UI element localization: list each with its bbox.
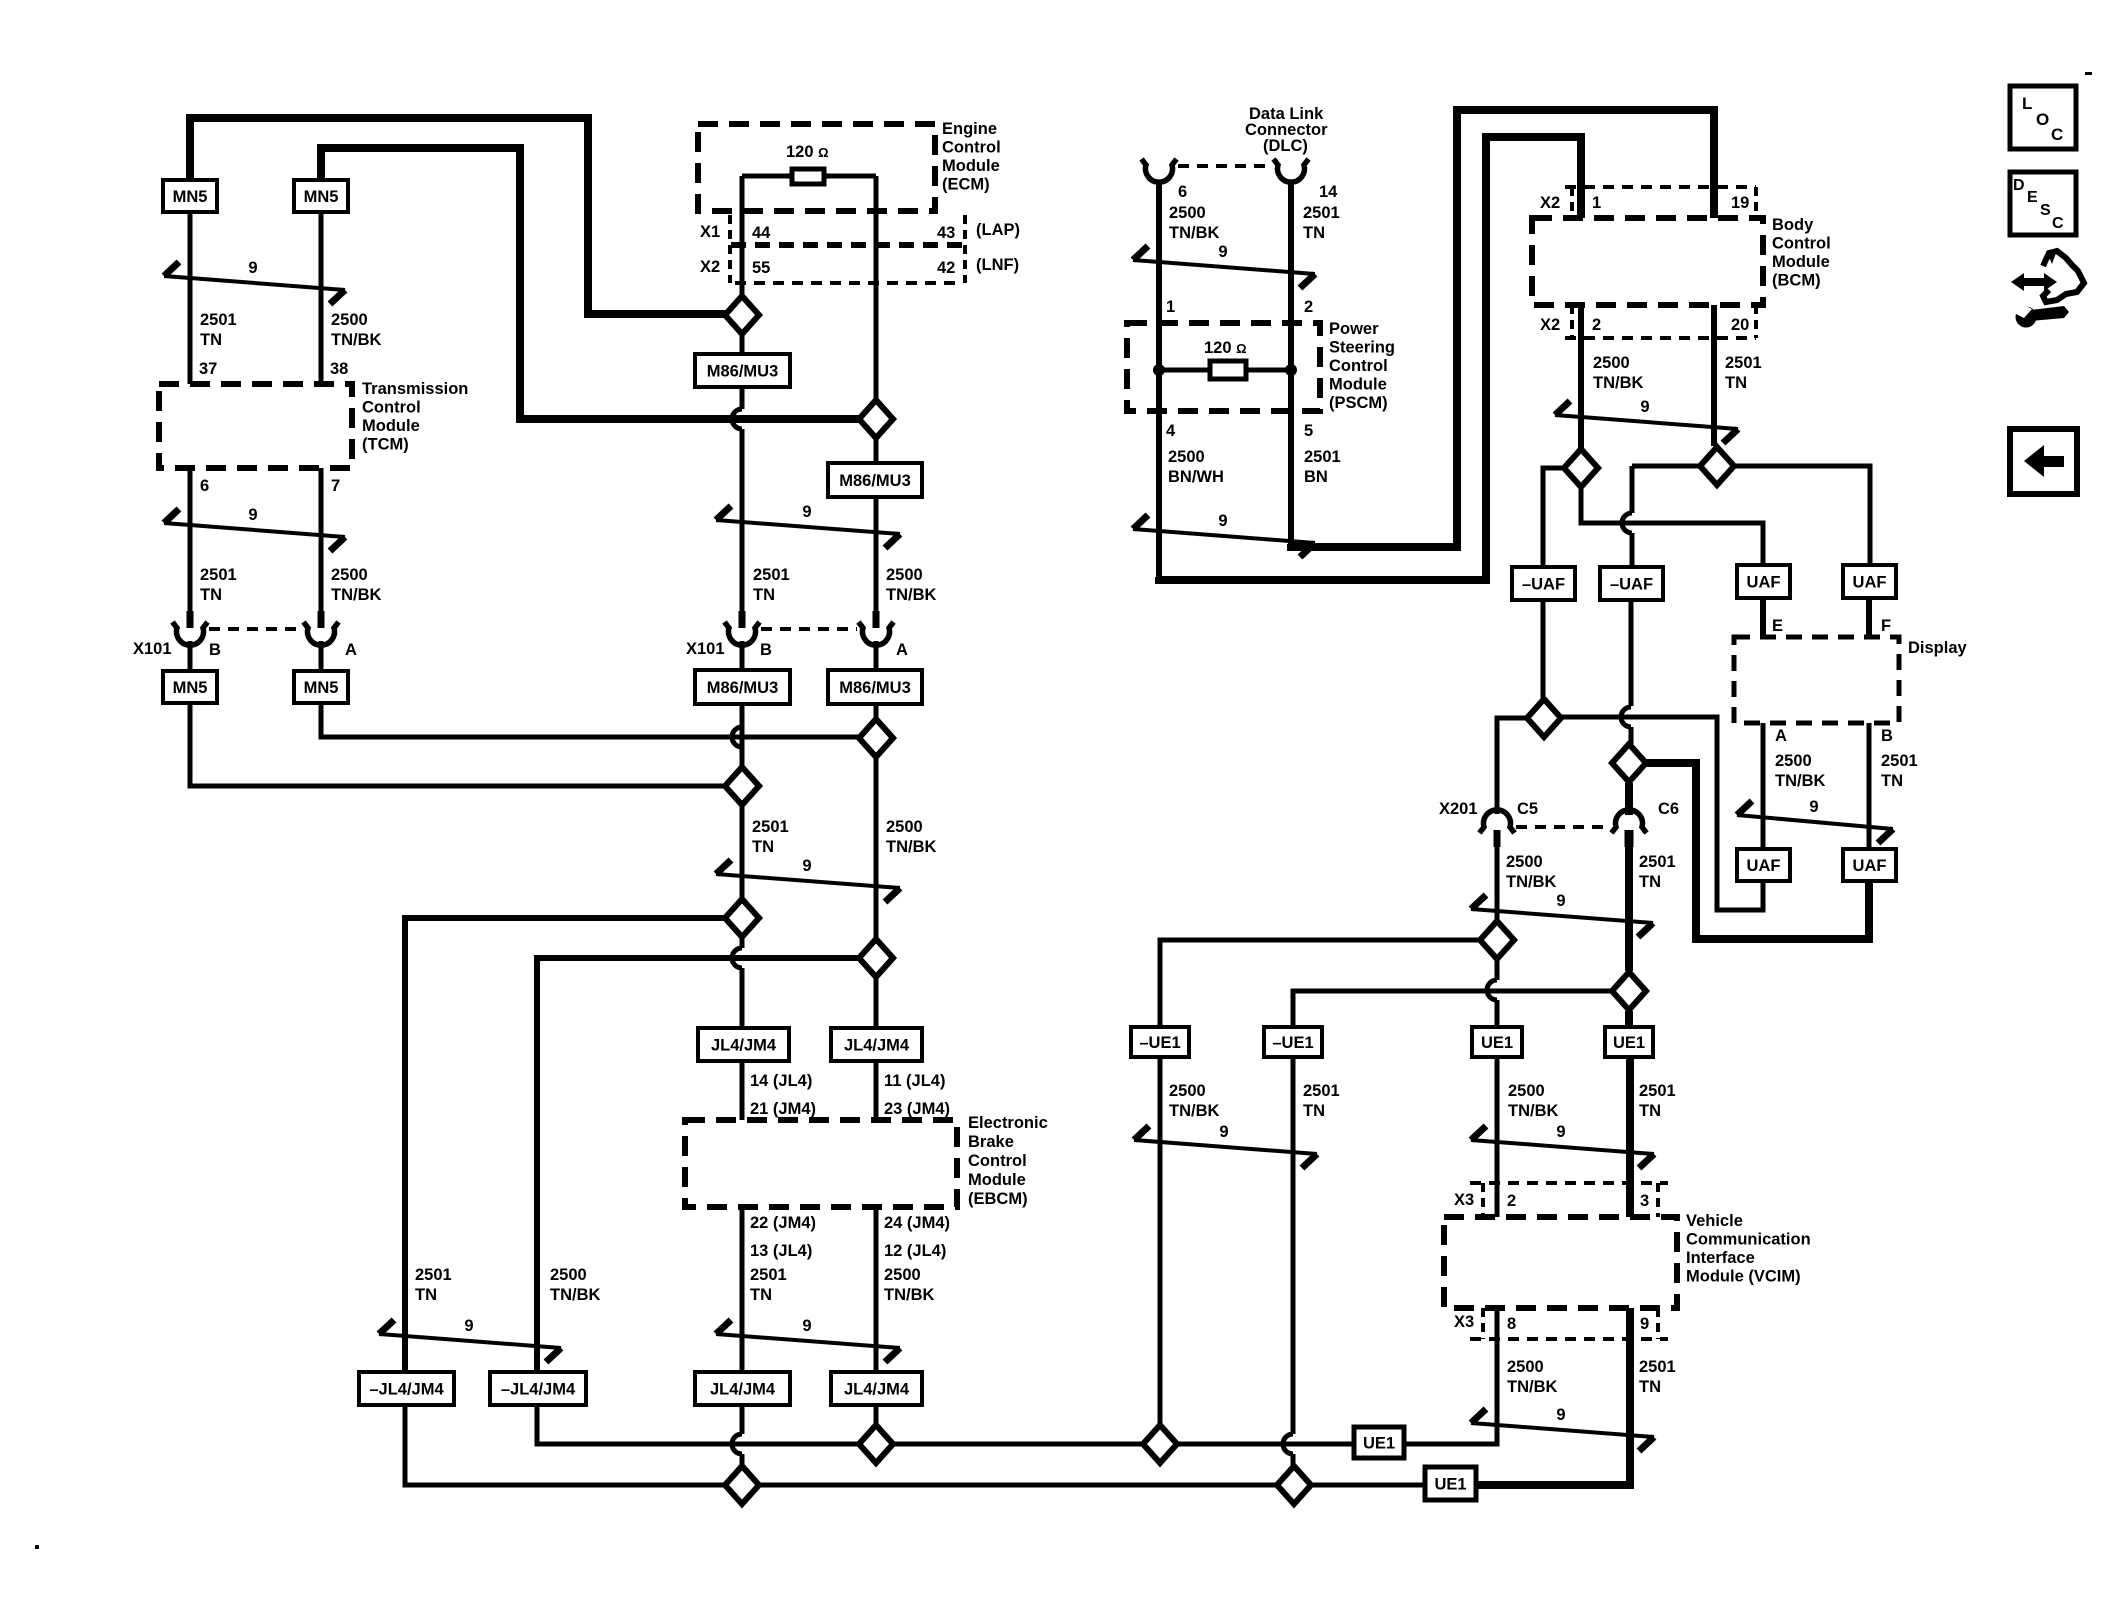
svg-text:X3: X3 (1454, 1191, 1474, 1209)
svg-text:MN5: MN5 (173, 679, 208, 697)
wire into JL4/JM4 (740, 968, 745, 1028)
fuse box MN5 (top second) (294, 180, 348, 212)
svg-text:–JL4/JM4: –JL4/JM4 (501, 1381, 576, 1399)
wire cup A to M86/MU3 (874, 641, 879, 670)
svg-text:X101: X101 (133, 640, 172, 658)
splice diamond (742,786) (725, 767, 759, 805)
icon box back arrow (2010, 429, 2077, 494)
hop (1632,523) (1622, 513, 1632, 533)
connector X101 dashed link (left) (209, 627, 302, 631)
wire UAF to Display pin E (1760, 598, 1766, 637)
module box PSCM (1127, 323, 1320, 411)
wire continues into -UAF second (1630, 533, 1635, 567)
connector bar right (963, 215, 967, 283)
wire splice left to X201 C5 (1497, 718, 1526, 814)
connector X101 dashed link (ECM) (761, 627, 857, 631)
wire UE1 fourth to VCIM pin 3 (thick) (1626, 1057, 1634, 1217)
wire 2500 TN/BK from TCM pin 7 (319, 468, 324, 628)
svg-text:3: 3 (1640, 1192, 1649, 1210)
wire M86/MU3 right down to X101 (874, 497, 879, 628)
connector X101 male pin (B left) (187, 611, 194, 628)
connector X3 top dashed line (1470, 1181, 1668, 1185)
svg-text:X2: X2 (1540, 194, 1560, 212)
svg-text:S: S (2040, 202, 2051, 219)
wire MN5 A to splice run (hops x742) (321, 703, 861, 737)
connector bar left (VCIM bottom) (1481, 1308, 1485, 1339)
fuse box -JL4/JM4 (second) (490, 1372, 586, 1405)
wire DLC pin 14 down (1288, 180, 1294, 323)
wire JL4/JM4 down hops line1 (740, 1405, 745, 1434)
wire -UE1 second down to line2 (hops line1) (1291, 1057, 1296, 1434)
svg-text:120 Ω: 120 Ω (1204, 339, 1247, 357)
icon component view (arrow and wrench) (2011, 251, 2084, 328)
svg-text:Display: Display (1908, 639, 1968, 657)
wire -UAF first down to splice (1541, 600, 1546, 698)
svg-text:42: 42 (937, 259, 955, 277)
wire EBCM pin 22/13 down (740, 1207, 745, 1372)
svg-text:2: 2 (1304, 298, 1313, 316)
wire continues to X101 (740, 429, 745, 628)
bus PSCM pin5 to BCM pin19 (thick) (1291, 110, 1714, 547)
junction dot left (1153, 364, 1165, 376)
wire ECM pin 44/55 down to splice (740, 176, 745, 297)
wire into line2 splice (1291, 1454, 1296, 1465)
twisted pair slash (VCIM bottom) (1471, 1406, 1654, 1451)
wire cup B to M86/MU3 (740, 641, 745, 670)
wire JL4/JM4 right down to line1 splice (874, 1405, 879, 1424)
wire resistor left (1159, 368, 1210, 373)
wire PSCM pin 5 down (1288, 411, 1294, 545)
connector X101 male pin (A left) (318, 611, 325, 628)
wire DLC pin 6 down (1156, 180, 1162, 323)
wire 2501 TN to TCM pin 37 (188, 212, 193, 384)
splice diamond (742,1485) (725, 1466, 759, 1504)
svg-text:9: 9 (1556, 892, 1565, 910)
wire into splice C6 (1629, 727, 1634, 745)
branch wire splice to -UE1 first (1160, 940, 1479, 1027)
svg-text:–JL4/JM4: –JL4/JM4 (369, 1381, 444, 1399)
svg-text:9: 9 (802, 857, 811, 875)
svg-text:14: 14 (1319, 183, 1338, 201)
splice diamond (876,958) (859, 939, 893, 977)
svg-text:9: 9 (802, 1317, 811, 1335)
twisted pair slash (left pair) (379, 1317, 561, 1362)
bus line1 continues (1178, 1442, 1354, 1447)
splice diamond (876,738) (859, 719, 893, 757)
svg-text:9: 9 (1218, 512, 1227, 530)
svg-text:22 (JM4): 22 (JM4) (750, 1214, 816, 1232)
connector X101 female cup A (ECM) (859, 622, 894, 645)
bus line2 continues to UE1 (1312, 1483, 1425, 1488)
svg-text:X3: X3 (1454, 1313, 1474, 1331)
fuse box UAF (lower right) (1843, 849, 1896, 881)
connector bar right (VCIM top) (1656, 1183, 1660, 1217)
connector X3 bottom dashed line (1470, 1337, 1668, 1341)
svg-text:24 (JM4): 24 (JM4) (884, 1214, 950, 1232)
svg-text:23 (JM4): 23 (JM4) (884, 1100, 950, 1118)
fuse box UAF (E) (1737, 565, 1790, 598)
svg-text:44: 44 (752, 224, 771, 242)
branch wire to left bus 2501 (405, 918, 724, 1372)
svg-text:M86/MU3: M86/MU3 (839, 472, 911, 490)
connector X101 female cup A (left) (304, 622, 339, 645)
fuse box UE1 (third) (1472, 1027, 1522, 1057)
svg-text:1: 1 (1592, 194, 1601, 212)
branch wire splice to -UE1 second (1293, 991, 1611, 1027)
wire C6 splice into UE1 (thick) (1625, 1011, 1633, 1027)
wire 2500 TN/BK mid down (874, 758, 879, 938)
svg-text:13 (JL4): 13 (JL4) (750, 1242, 812, 1260)
wire 2501 TN from TCM pin 6 (188, 468, 193, 628)
svg-text:D: D (2013, 177, 2025, 194)
connector DLC dashed link (1178, 164, 1272, 168)
module box VCIM (1444, 1217, 1677, 1308)
fuse box MN5 (bottom left) (163, 671, 217, 703)
connector row X2 bottom dashed (735, 281, 961, 285)
twisted pair slash (X201) (1471, 892, 1653, 937)
fuse box -UE1 (second) (1264, 1027, 1322, 1057)
splice diamond (1497,940) (1480, 921, 1514, 959)
svg-text:X201: X201 (1439, 800, 1478, 818)
wire into UE1 (1495, 1000, 1500, 1027)
wire 876 splice to JL4/JM4 (874, 978, 879, 1028)
svg-text:B: B (1881, 727, 1893, 745)
svg-text:UAF: UAF (1747, 574, 1781, 592)
svg-text:MN5: MN5 (304, 679, 339, 697)
fuse box -UAF (first) (1512, 567, 1575, 600)
splice diamond (1160,1444) (1143, 1425, 1177, 1463)
twisted pair slash (TCM top) (164, 259, 345, 304)
svg-text:C: C (2052, 215, 2064, 232)
connector X101 male pin A (ECM) (873, 611, 880, 628)
fuse box JL4/JM4 (upper right) (831, 1028, 922, 1061)
wire PSCM internal left (1156, 323, 1162, 411)
fuse box UE1 (fourth) (1605, 1027, 1653, 1057)
svg-text:UAF: UAF (1853, 857, 1887, 875)
wire splice right to UAF lower-left loop (1562, 717, 1763, 910)
connector bar right (VCIM bottom) (1656, 1308, 1660, 1339)
icon box LOC (2010, 86, 2076, 149)
svg-text:7: 7 (331, 477, 340, 495)
hop (742,1444) (732, 1434, 742, 1454)
svg-text:–UE1: –UE1 (1139, 1034, 1180, 1052)
wire M86/MU3 to splice (740, 704, 745, 766)
splice diamond (876,1444) (859, 1425, 893, 1463)
svg-text:9: 9 (1640, 1315, 1649, 1333)
twisted pair slash (ECM) (716, 503, 900, 548)
svg-text:14 (JL4): 14 (JL4) (750, 1072, 812, 1090)
svg-text:–UAF: –UAF (1522, 576, 1565, 594)
hop (1631,717) (1621, 707, 1631, 727)
svg-text:B: B (209, 641, 221, 659)
splice diamond (ECM 2500) (859, 400, 893, 438)
svg-text:9: 9 (464, 1317, 473, 1335)
bus PSCM pin4 to BCM pin1 (thick) (1159, 137, 1581, 580)
resistor 120 ohm (ECM) (792, 169, 824, 184)
wire BCM pin 2 down (1578, 305, 1584, 448)
svg-text:37: 37 (199, 360, 217, 378)
twisted pair slash (DLC) (1133, 243, 1315, 288)
svg-text:X2: X2 (1540, 316, 1560, 334)
wire M86/MU3 right to splice (874, 704, 879, 718)
bus line1 to VCIM pin 8 (1404, 1308, 1497, 1444)
connector bar left (BCM top) (1570, 187, 1574, 218)
wire UAF to Display pin F (1866, 598, 1872, 637)
wire -JL4/JM4 second to bottom bus 2500 (537, 1405, 858, 1444)
wire splice to JL4/JM4 hop over branch (740, 938, 745, 948)
svg-text:9: 9 (1219, 1123, 1228, 1141)
connector DLC female cup pin 6 (1142, 159, 1177, 182)
svg-text:–UAF: –UAF (1610, 576, 1653, 594)
svg-text:A: A (345, 641, 357, 659)
svg-text:9: 9 (1809, 798, 1818, 816)
svg-text:9: 9 (1640, 398, 1649, 416)
svg-text:UE1: UE1 (1434, 1476, 1466, 1494)
fuse box UAF (F) (1843, 565, 1896, 598)
svg-text:MN5: MN5 (173, 188, 208, 206)
wire 2500 TN/BK to TCM pin 38 (319, 212, 324, 384)
connector X201 male pin C5 (1494, 830, 1501, 847)
wire into splice line2 (740, 1454, 745, 1465)
wire -UAF second down (hops) (1629, 600, 1634, 706)
wire splice down to UAF E run (1581, 488, 1763, 565)
fuse box M86/MU3 (lower right) (828, 670, 922, 704)
bus line2 to VCIM pin 9 (thick) (1476, 1308, 1630, 1485)
bus line1 2500 TN/BK bottom (894, 1442, 1142, 1447)
hop (742,419) (732, 409, 742, 429)
svg-text:O: O (2036, 110, 2049, 129)
wire Display pin B to UAF (1867, 723, 1872, 849)
wire ECM internal resistor right (824, 174, 876, 179)
wire resistor right (1246, 368, 1291, 373)
twisted pair slash (PSCM) (1133, 512, 1315, 557)
fuse box MN5 (bottom second) (294, 671, 348, 703)
twisted pair slash (Display) (1737, 798, 1893, 843)
hop (1293,1444) (1283, 1434, 1293, 1454)
wire Display pin A to UAF (1761, 723, 1766, 849)
splice diamond (742,918) (725, 899, 759, 937)
wire -JL4/JM4 far left to bottom bus 2501 (405, 1405, 724, 1485)
wire ECM internal resistor left (742, 174, 792, 179)
icon box DESC (2010, 172, 2076, 235)
fuse box M86/MU3 (lower left) (695, 670, 790, 704)
wire splice to M86/MU3 right (874, 439, 879, 463)
svg-text:C5: C5 (1517, 800, 1538, 818)
svg-text:(LAP): (LAP) (976, 221, 1020, 239)
connector X201 male pin C6 (1625, 830, 1634, 847)
twisted pair slash (-UE1 pair) (1134, 1123, 1317, 1168)
svg-text:X101: X101 (686, 640, 725, 658)
connector X101 male pin B (ECM) (739, 611, 746, 628)
svg-text:JL4/JM4: JL4/JM4 (711, 1037, 777, 1055)
svg-text:JL4/JM4: JL4/JM4 (844, 1381, 910, 1399)
wire 2501 TN mid down (740, 806, 745, 898)
svg-text:M86/MU3: M86/MU3 (707, 363, 779, 381)
wire C5 down to splice (1495, 847, 1500, 920)
stray mark top right (2085, 72, 2092, 75)
stray mark bottom left (35, 1545, 39, 1549)
svg-text:1: 1 (1166, 298, 1175, 316)
svg-text:2: 2 (1592, 316, 1601, 334)
svg-text:6: 6 (200, 477, 209, 495)
connector bar left (BCM bottom) (1570, 305, 1574, 338)
fuse box -UE1 (first) (1131, 1027, 1189, 1057)
connector DLC female cup pin 14 (1274, 159, 1309, 182)
svg-text:A: A (896, 641, 908, 659)
module box ECM (698, 124, 935, 211)
svg-text:11 (JL4): 11 (JL4) (884, 1072, 945, 1090)
svg-text:–UE1: –UE1 (1272, 1034, 1313, 1052)
fuse box JL4/JM4 (bottom mid right) (831, 1372, 922, 1405)
svg-text:9: 9 (1556, 1123, 1565, 1141)
splice diamond (1629,763) (1612, 744, 1646, 782)
wire UE1 third to VCIM pin 2 (1495, 1057, 1500, 1217)
svg-text:6: 6 (1178, 183, 1187, 201)
fuse box UAF (lower left) (1737, 849, 1790, 881)
wire splice to M86/MU3 (740, 335, 745, 354)
svg-text:UAF: UAF (1747, 857, 1781, 875)
splice diamond (ECM 2501) (725, 296, 759, 334)
svg-text:21 (JM4): 21 (JM4) (750, 1100, 816, 1118)
splice diamond (1581,468) (1564, 449, 1598, 487)
twisted pair slash (BCM) (1555, 398, 1738, 443)
svg-text:E: E (1772, 617, 1783, 635)
svg-text:C: C (2051, 125, 2063, 144)
svg-text:(LNF): (LNF) (976, 256, 1019, 274)
splice diamond (1544,718) (1527, 699, 1561, 737)
connector bar right (BCM top) (1754, 187, 1758, 218)
svg-text:9: 9 (248, 506, 257, 524)
svg-text:43: 43 (937, 224, 955, 242)
twisted pair slash (EBCM pair) (716, 1317, 900, 1362)
twisted pair slash (VCIM top) (1471, 1123, 1654, 1168)
svg-text:JL4/JM4: JL4/JM4 (844, 1037, 910, 1055)
svg-text:9: 9 (802, 503, 811, 521)
fuse box UE1 (inline line2) (1425, 1467, 1476, 1500)
svg-text:M86/MU3: M86/MU3 (839, 679, 911, 697)
svg-text:4: 4 (1166, 422, 1176, 440)
module box Display (1734, 637, 1899, 723)
svg-text:UE1: UE1 (1613, 1034, 1645, 1052)
bus line2 2501 TN bottom (760, 1483, 1276, 1488)
connector X2 bottom dashed line (1565, 336, 1756, 340)
fuse box -JL4/JM4 (far left) (359, 1372, 454, 1405)
wire splice to UAF F (1735, 466, 1870, 565)
fuse box -UAF (second) (1600, 567, 1663, 600)
svg-text:9: 9 (248, 259, 257, 277)
svg-text:X1: X1 (700, 223, 720, 241)
hop (742,958) (732, 948, 742, 968)
svg-text:19: 19 (1731, 194, 1749, 212)
wire -UE1 first down to line1 splice (1158, 1057, 1163, 1424)
connector X101 female cup B (ECM) (725, 622, 760, 645)
connector X201 dome C6 (1612, 810, 1647, 833)
module box BCM (1532, 218, 1763, 305)
twisted pair slash (TCM bottom) (164, 506, 345, 551)
module box TCM (159, 384, 352, 468)
wire JL4/JM4 to EBCM pin (740, 1061, 745, 1120)
svg-text:2: 2 (1507, 1192, 1516, 1210)
junction dot right (1285, 364, 1297, 376)
splice diamond (1717,466) (1700, 447, 1734, 485)
svg-text:JL4/JM4: JL4/JM4 (710, 1381, 776, 1399)
svg-text:M86/MU3: M86/MU3 (707, 679, 779, 697)
connector X2 top dashed line (1565, 185, 1756, 189)
wire PSCM pin 4 down (1156, 411, 1162, 578)
connector X201 dome C5 (1480, 810, 1515, 833)
wire ECM pin 43/42 down to splice (874, 176, 879, 401)
svg-text:X2: X2 (700, 258, 720, 276)
module box EBCM (685, 1120, 957, 1207)
connector X201 dashed link (1516, 825, 1610, 829)
svg-text:5: 5 (1304, 422, 1313, 440)
twisted pair slash (mid) (716, 857, 900, 902)
svg-text:C6: C6 (1658, 800, 1679, 818)
fuse box M86/MU3 (right) (828, 463, 922, 497)
branch wire to left bus 2500 (537, 958, 858, 1372)
svg-text:8: 8 (1507, 1315, 1516, 1333)
fuse box JL4/JM4 (upper left) (698, 1028, 789, 1061)
svg-text:E: E (2027, 189, 2038, 206)
wire: TCM pin37/MN5 top run to ECM splice (190, 118, 727, 314)
svg-text:9: 9 (1556, 1406, 1565, 1424)
fuse box M86/MU3 (upper) (695, 354, 790, 387)
svg-text:UE1: UE1 (1363, 1435, 1395, 1453)
svg-text:MN5: MN5 (304, 188, 339, 206)
svg-text:UE1: UE1 (1481, 1034, 1513, 1052)
svg-text:12 (JL4): 12 (JL4) (884, 1242, 946, 1260)
svg-text:L: L (2022, 94, 2032, 113)
svg-text:F: F (1881, 617, 1891, 635)
splice diamond (1629,991) (1612, 972, 1646, 1010)
splice diamond (1294,1485) (1277, 1466, 1311, 1504)
wire splice down to X201 C6 (thick) (1625, 783, 1633, 815)
wire MN5 B to splice run (190, 703, 727, 786)
connector bar right (BCM bottom) (1754, 305, 1758, 338)
wire JL4/JM4 to EBCM pin right (874, 1061, 879, 1120)
svg-text:9: 9 (1218, 243, 1227, 261)
svg-text:55: 55 (752, 259, 770, 277)
fuse box JL4/JM4 (bottom mid left) (695, 1372, 790, 1405)
wire splice to UAF lower-right loop (thick) (1647, 763, 1869, 939)
svg-text:120 Ω: 120 Ω (786, 143, 829, 161)
resistor 120 ohm (PSCM) (1210, 361, 1246, 379)
wire splice to -UAF second (hops) (1630, 466, 1635, 513)
connector row X1/X2 thick divider (731, 242, 965, 248)
wire PSCM internal right (1288, 323, 1294, 411)
wire splice to -UAF first (1543, 468, 1563, 567)
hop (1497,990) (1487, 980, 1497, 1000)
wire splice down hops branch (1495, 960, 1500, 980)
fuse box UE1 (inline line1) (1354, 1427, 1404, 1458)
svg-text:A: A (1775, 727, 1787, 745)
wire to MN5 (bottom left B) (188, 641, 193, 671)
svg-text:UAF: UAF (1853, 574, 1887, 592)
wire BCM pin 20 down (1711, 305, 1717, 446)
wire: TCM pin38/MN5 top run to ECM splice (321, 148, 861, 419)
wire M86/MU3 down, hops 2500 run (740, 387, 745, 409)
connector bar left (728, 215, 732, 283)
fuse box MN5 (top left) (163, 180, 217, 212)
wire EBCM pin 24/12 down (874, 1207, 879, 1372)
svg-text:38: 38 (330, 360, 348, 378)
wire to MN5 (bottom left A) (319, 641, 324, 671)
hop (742,737) (732, 727, 742, 747)
connector bar left (VCIM top) (1481, 1183, 1485, 1217)
svg-text:B: B (760, 641, 772, 659)
svg-text:20: 20 (1731, 316, 1749, 334)
connector X101 female cup B (left) (173, 622, 208, 645)
